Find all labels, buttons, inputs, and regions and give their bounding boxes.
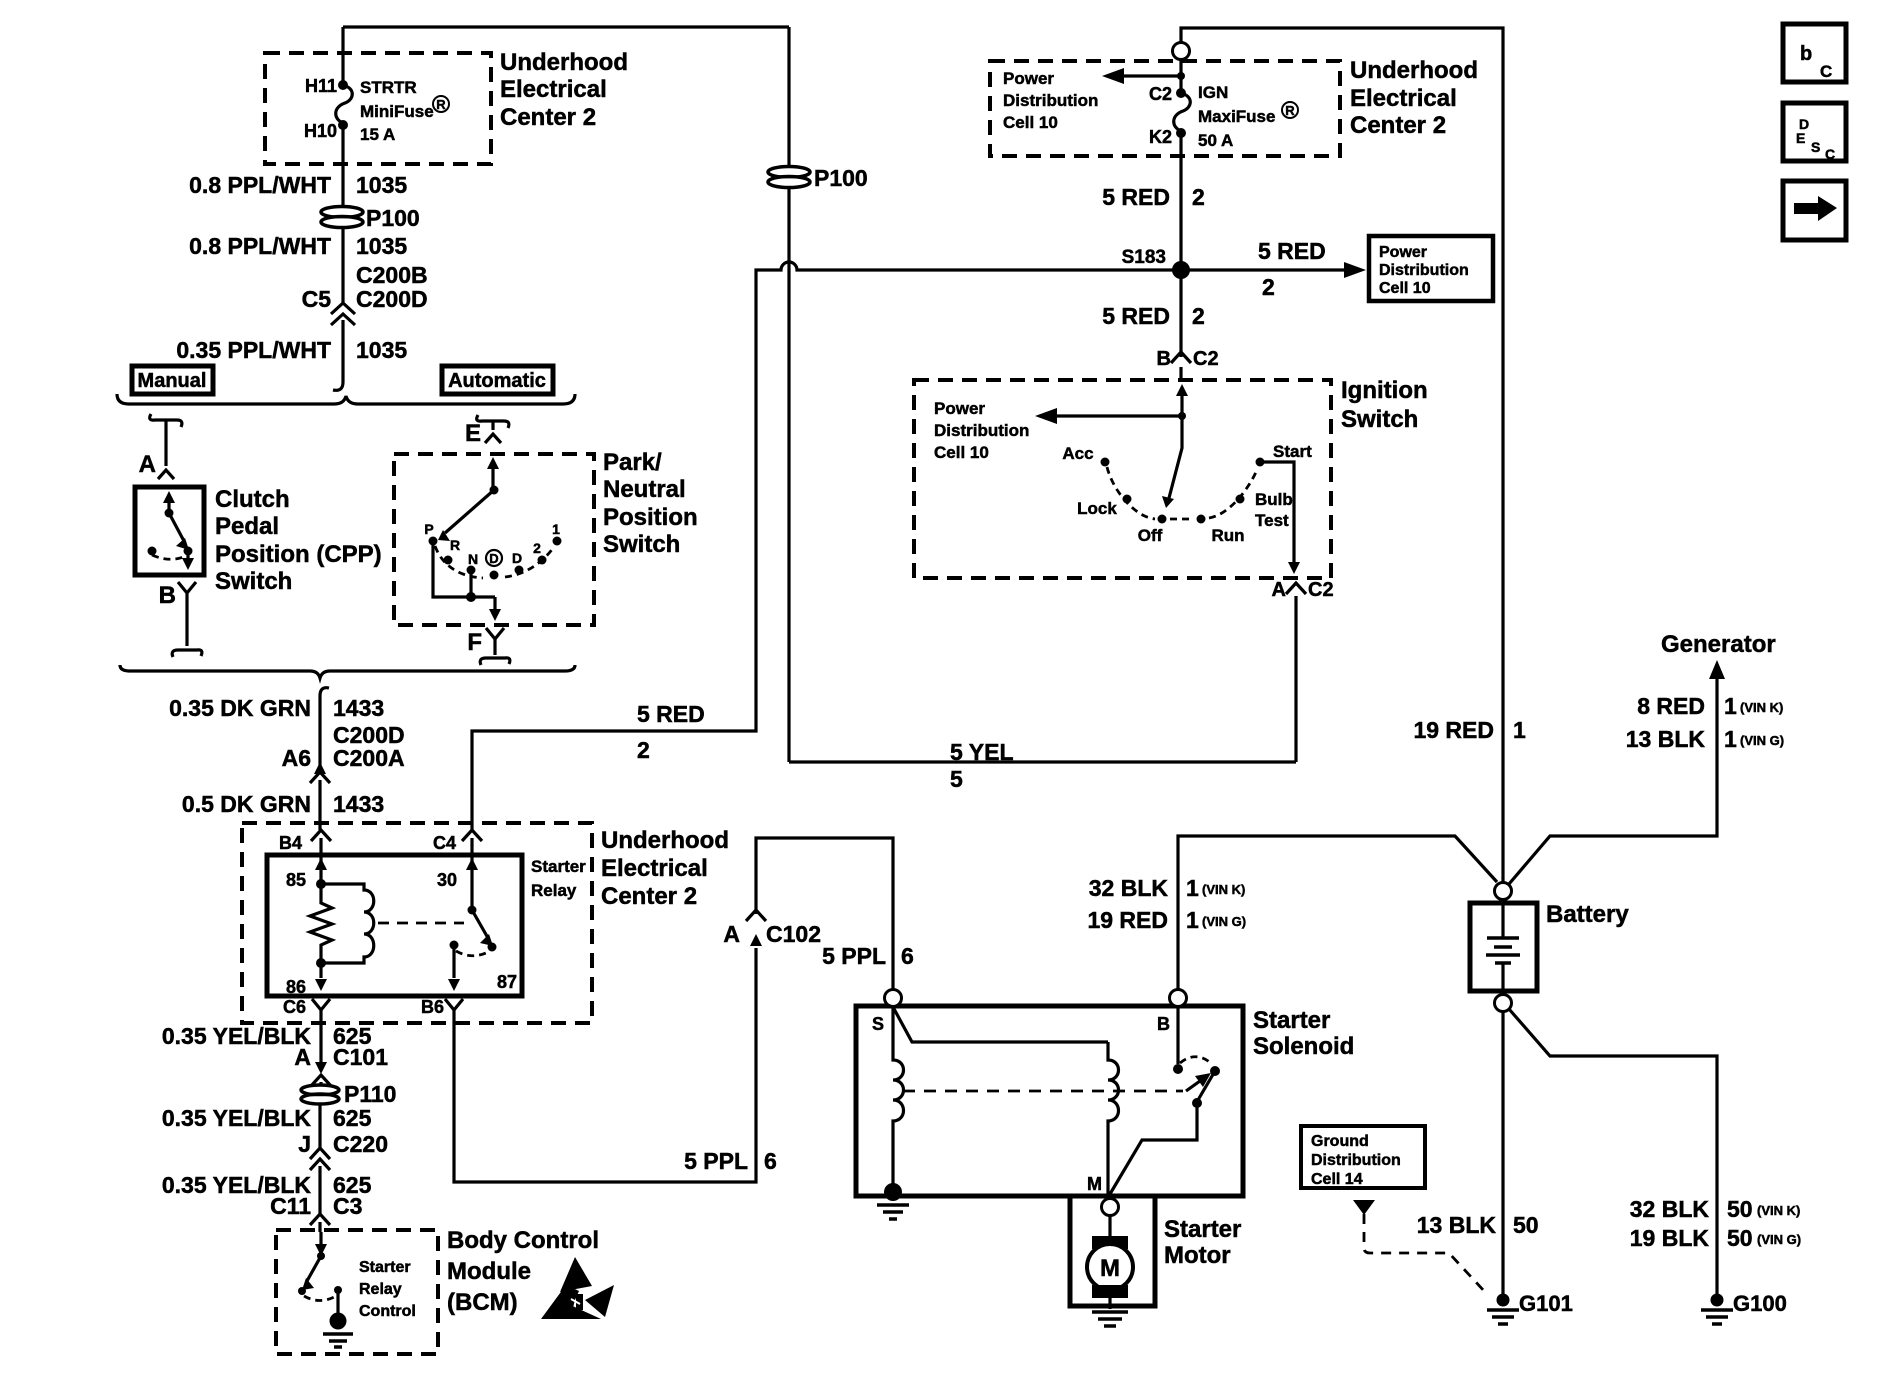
- motor internals: [1108, 1216, 1111, 1236]
- svg-text:Module: Module: [447, 1258, 531, 1285]
- svg-text:Manual: Manual: [138, 370, 207, 392]
- battery negative branch to G100: [1509, 1009, 1717, 1294]
- svg-text:P110: P110: [344, 1081, 396, 1107]
- pin B6 fork: [445, 999, 463, 1010]
- wire: A C2 drop: [1294, 596, 1297, 762]
- svg-text:C2: C2: [1308, 579, 1334, 601]
- svg-text:C2: C2: [1193, 348, 1219, 370]
- svg-text:D: D: [489, 551, 498, 566]
- svg-text:S: S: [872, 1014, 884, 1034]
- svg-text:Off: Off: [1138, 526, 1163, 545]
- svg-text:5 RED: 5 RED: [1102, 303, 1170, 329]
- svg-text:Starter: Starter: [1164, 1216, 1241, 1243]
- svg-text:(VIN K): (VIN K): [1740, 700, 1783, 715]
- wire: 19 RED from battery to IGN maxifuse: [1181, 28, 1503, 883]
- svg-text:B6: B6: [421, 997, 444, 1017]
- svg-text:8 RED: 8 RED: [1637, 693, 1705, 719]
- svg-text:F: F: [467, 629, 482, 656]
- connector B C2: [1171, 352, 1191, 363]
- relay contact travel arc: [456, 951, 488, 956]
- svg-text:M: M: [1100, 1255, 1120, 1282]
- terminal F of PNP: fork: [486, 628, 504, 639]
- svg-text:85: 85: [286, 870, 306, 890]
- svg-text:C200B: C200B: [356, 262, 428, 288]
- svg-text:Pedal: Pedal: [215, 513, 279, 540]
- corner icon arrow: [1783, 181, 1846, 240]
- svg-text:0.8 PPL/WHT: 0.8 PPL/WHT: [189, 172, 331, 198]
- svg-text:Center 2: Center 2: [601, 883, 697, 910]
- svg-text:Battery: Battery: [1546, 901, 1629, 928]
- ignition travel arc dashed: [1107, 467, 1257, 519]
- svg-text:(VIN K): (VIN K): [1202, 882, 1245, 897]
- solenoid pull-in coil (right): [1108, 1042, 1119, 1196]
- svg-text:b: b: [1800, 43, 1812, 65]
- svg-text:1: 1: [1513, 717, 1526, 743]
- svg-text:Run: Run: [1211, 526, 1244, 545]
- svg-text:0.35 PPL/WHT: 0.35 PPL/WHT: [176, 337, 331, 363]
- ignition branch arrow to power dist: [1178, 412, 1186, 420]
- svg-text:N: N: [468, 551, 478, 567]
- svg-text:1433: 1433: [333, 791, 384, 817]
- svg-text:A: A: [1272, 579, 1286, 601]
- battery: [1495, 883, 1512, 900]
- svg-text:5 PPL: 5 PPL: [822, 943, 886, 969]
- solenoid linkage dashed: [903, 1090, 1183, 1093]
- ignition switch dashed box: [914, 380, 1331, 578]
- Automatic box: [442, 366, 553, 394]
- svg-text:1035: 1035: [356, 233, 407, 259]
- wire: drop to H11: [341, 27, 344, 85]
- svg-text:C3: C3: [333, 1193, 362, 1219]
- svg-text:C200A: C200A: [333, 745, 405, 771]
- svg-text:86: 86: [286, 977, 306, 997]
- svg-text:1433: 1433: [333, 695, 384, 721]
- wire to brace with end hook: [333, 320, 343, 390]
- svg-text:Underhood: Underhood: [1350, 57, 1478, 84]
- svg-text:32 BLK: 32 BLK: [1089, 875, 1169, 901]
- starter motor box: [1070, 1196, 1155, 1306]
- svg-text:6: 6: [901, 943, 914, 969]
- wire: S183 right arrow to power distribution: [1181, 268, 1346, 271]
- P/N output wiring: [433, 541, 495, 597]
- ground G100: [1711, 1294, 1724, 1307]
- svg-text:C6: C6: [283, 997, 306, 1017]
- svg-text:C101: C101: [333, 1044, 388, 1070]
- wire: 5 YEL horizontal to ignition A C2: [789, 760, 1296, 763]
- relay pin 86 exit: [319, 963, 322, 978]
- svg-text:2: 2: [637, 737, 650, 763]
- svg-text:19 RED: 19 RED: [1413, 717, 1494, 743]
- svg-text:19 RED: 19 RED: [1087, 907, 1168, 933]
- svg-text:Underhood: Underhood: [601, 827, 729, 854]
- svg-text:0.35 YEL/BLK: 0.35 YEL/BLK: [162, 1105, 312, 1131]
- svg-text:(VIN G): (VIN G): [1740, 733, 1784, 748]
- solenoid switch: B contact: [1176, 1007, 1179, 1064]
- svg-text:A: A: [139, 451, 156, 478]
- svg-text:0.8 PPL/WHT: 0.8 PPL/WHT: [189, 233, 331, 259]
- svg-text:Start: Start: [1273, 442, 1312, 461]
- svg-text:Park/: Park/: [603, 449, 662, 476]
- svg-text:Starter: Starter: [1253, 1007, 1330, 1034]
- relay pin 30 entry: [470, 838, 473, 910]
- svg-text:Automatic: Automatic: [448, 370, 546, 392]
- svg-text:Electrical: Electrical: [1350, 85, 1457, 112]
- svg-text:R: R: [1285, 103, 1295, 118]
- PNP interior: wiper: [491, 464, 494, 490]
- wire: solenoid B to battery +: [1178, 836, 1497, 991]
- svg-text:C: C: [1825, 146, 1835, 162]
- svg-text:30: 30: [437, 870, 457, 890]
- svg-text:5 PPL: 5 PPL: [684, 1148, 748, 1174]
- svg-text:B: B: [159, 582, 176, 609]
- svg-text:Cell 10: Cell 10: [934, 443, 989, 462]
- underhood electrical center 2 (top left) dashed box: [265, 53, 491, 164]
- svg-text:Distribution: Distribution: [1003, 91, 1098, 110]
- svg-text:Clutch: Clutch: [215, 486, 290, 513]
- svg-text:Position (CPP): Position (CPP): [215, 541, 382, 568]
- svg-text:1: 1: [1186, 907, 1199, 933]
- ground distribution pointer: [1353, 1200, 1375, 1215]
- PNP contacts P R N D D 2 1: [429, 537, 438, 546]
- svg-text:C200D: C200D: [356, 286, 428, 312]
- svg-text:5: 5: [950, 766, 963, 792]
- svg-text:Center 2: Center 2: [500, 104, 596, 131]
- svg-text:B: B: [1157, 1014, 1170, 1034]
- svg-text:Switch: Switch: [1341, 406, 1418, 433]
- svg-text:(VIN G): (VIN G): [1757, 1232, 1801, 1247]
- svg-text:50 A: 50 A: [1198, 131, 1233, 150]
- BCM driver: entry arrow: [319, 1232, 322, 1250]
- terminal E of PNP: T-bar: [477, 415, 509, 428]
- svg-text:Distribution: Distribution: [1311, 1152, 1401, 1169]
- svg-text:B4: B4: [279, 833, 302, 853]
- svg-text:87: 87: [497, 972, 517, 992]
- svg-text:G100: G100: [1733, 1291, 1787, 1316]
- wire C6 down: [319, 1010, 322, 1062]
- connector A C2 below ignition: [1286, 583, 1306, 594]
- grommet P100 (middle): [768, 167, 810, 178]
- svg-text:(BCM): (BCM): [447, 1289, 518, 1316]
- relay coil: [321, 884, 374, 963]
- svg-text:STRTR: STRTR: [360, 78, 417, 97]
- svg-text:C11: C11: [270, 1193, 311, 1219]
- wire: P100 mid drop (5 YEL): [787, 27, 790, 166]
- svg-text:C220: C220: [333, 1131, 388, 1157]
- svg-text:Position: Position: [603, 504, 698, 531]
- svg-text:A: A: [294, 1044, 311, 1070]
- svg-text:Body Control: Body Control: [447, 1227, 599, 1254]
- relay linkage dashed: [378, 922, 464, 925]
- solenoid switch arm to M: [1198, 1071, 1215, 1100]
- svg-text:C2: C2: [1149, 84, 1172, 104]
- grommet P100 (left): [321, 207, 363, 218]
- relay resistor: [310, 884, 332, 963]
- svg-text:2: 2: [1192, 184, 1205, 210]
- svg-text:0.35 YEL/BLK: 0.35 YEL/BLK: [162, 1023, 312, 1049]
- start output: [1260, 462, 1294, 565]
- terminal B of CPP: fork: [178, 582, 196, 593]
- coil junction bottom: [316, 958, 326, 968]
- svg-text:1: 1: [1724, 726, 1737, 752]
- svg-text:1: 1: [1724, 693, 1737, 719]
- svg-text:0.35 DK GRN: 0.35 DK GRN: [169, 695, 311, 721]
- svg-text:5 RED: 5 RED: [1102, 184, 1170, 210]
- underhood electrical center 2 (relay) dashed box: [242, 823, 592, 1023]
- svg-text:(VIN K): (VIN K): [1757, 1203, 1800, 1218]
- underhood electrical center 2 (top right) dashed box: [990, 61, 1340, 156]
- svg-text:J: J: [298, 1131, 311, 1157]
- svg-text:Motor: Motor: [1164, 1242, 1231, 1269]
- svg-text:0.5 DK GRN: 0.5 DK GRN: [182, 791, 311, 817]
- svg-text:Distribution: Distribution: [934, 421, 1029, 440]
- svg-text:A: A: [723, 921, 740, 947]
- svg-text:E: E: [465, 420, 481, 447]
- brace (top, options split): [117, 394, 575, 404]
- wire K2 down to S183: [1179, 133, 1182, 357]
- solenoid ground: [884, 1183, 902, 1201]
- svg-text:Cell 10: Cell 10: [1003, 113, 1058, 132]
- svg-text:50: 50: [1727, 1225, 1753, 1251]
- BCM switch arm: [307, 1256, 321, 1281]
- svg-text:Lock: Lock: [1077, 499, 1117, 518]
- battery negative to G101: [1501, 1011, 1504, 1294]
- svg-text:Acc: Acc: [1062, 444, 1093, 463]
- svg-text:C: C: [1820, 62, 1832, 81]
- svg-text:Cell 14: Cell 14: [1311, 1171, 1363, 1188]
- relay pin 85 entry: [319, 838, 322, 884]
- svg-text:1035: 1035: [356, 172, 407, 198]
- svg-text:Solenoid: Solenoid: [1253, 1033, 1354, 1060]
- wire: S183 left branch (5 RED to relay 30) with hop over P100 wire: [472, 262, 1181, 830]
- ground G101: [1497, 1294, 1510, 1307]
- terminal B: [1170, 990, 1187, 1007]
- wire H10 down to P100: [341, 125, 344, 206]
- svg-text:15 A: 15 A: [360, 125, 395, 144]
- svg-text:R: R: [450, 537, 460, 553]
- Manual box: [132, 366, 213, 394]
- svg-text:Electrical: Electrical: [601, 855, 708, 882]
- svg-text:Switch: Switch: [215, 568, 292, 595]
- svg-text:Control: Control: [359, 1303, 416, 1320]
- coil junction top: [316, 879, 326, 889]
- svg-text:625: 625: [333, 1105, 372, 1131]
- svg-text:MaxiFuse: MaxiFuse: [1198, 107, 1275, 126]
- svg-text:C102: C102: [766, 921, 821, 947]
- power distribution cell 10 box (right): [1369, 236, 1493, 301]
- wire below P100: [341, 228, 344, 303]
- ESD symbol: [560, 1257, 592, 1292]
- svg-text:Starter: Starter: [359, 1259, 411, 1276]
- generator branch: [1509, 672, 1717, 884]
- svg-text:Relay: Relay: [359, 1281, 402, 1298]
- solenoid pull-in winding feed: [893, 1007, 1108, 1042]
- relay switch arm: [468, 906, 477, 915]
- ground distribution cell 14 box: [1301, 1126, 1425, 1188]
- svg-text:50: 50: [1513, 1212, 1539, 1238]
- svg-text:1: 1: [1186, 875, 1199, 901]
- svg-text:19 BLK: 19 BLK: [1630, 1225, 1710, 1251]
- svg-text:Generator: Generator: [1661, 631, 1776, 658]
- svg-text:5 RED: 5 RED: [1258, 238, 1326, 264]
- svg-text:2: 2: [1192, 303, 1205, 329]
- svg-text:Bulb: Bulb: [1255, 490, 1293, 509]
- svg-text:K2: K2: [1149, 127, 1172, 147]
- svg-text:Ground: Ground: [1311, 1133, 1369, 1150]
- svg-text:C4: C4: [433, 833, 456, 853]
- svg-text:Power: Power: [934, 399, 985, 418]
- svg-text:Starter: Starter: [531, 857, 586, 876]
- fuse IGN MaxiFuse 50A (C2-K2): [1176, 88, 1186, 98]
- svg-text:S183: S183: [1122, 247, 1166, 268]
- svg-text:Relay: Relay: [531, 881, 577, 900]
- svg-text:H10: H10: [304, 121, 337, 141]
- svg-text:Power: Power: [1379, 244, 1427, 261]
- svg-text:2: 2: [533, 540, 541, 556]
- connector C200 double chevron: [331, 303, 355, 314]
- svg-text:Distribution: Distribution: [1379, 262, 1469, 279]
- svg-text:Power: Power: [1003, 69, 1054, 88]
- svg-text:R: R: [436, 97, 446, 112]
- pin C6 fork: [312, 999, 330, 1010]
- svg-text:5 RED: 5 RED: [637, 701, 705, 727]
- svg-text:13 BLK: 13 BLK: [1626, 726, 1706, 752]
- svg-text:B: B: [1157, 348, 1171, 370]
- svg-text:P100: P100: [814, 165, 868, 191]
- body control module dashed box: [276, 1230, 438, 1354]
- svg-text:G101: G101: [1519, 1291, 1573, 1316]
- park/neutral position switch dashed box: [394, 454, 594, 625]
- grommet P110: [301, 1085, 339, 1095]
- svg-text:H11: H11: [305, 76, 337, 96]
- solenoid hold-in coil (left): [893, 1007, 904, 1186]
- connector C200A chevrons: [314, 762, 326, 774]
- wire below P110: [318, 1104, 321, 1148]
- svg-text:Switch: Switch: [603, 531, 680, 558]
- svg-text:(VIN G): (VIN G): [1202, 914, 1246, 929]
- svg-text:A6: A6: [282, 745, 311, 771]
- relay fixed contact 87: [450, 941, 459, 950]
- wire below brace with start hook: [320, 688, 329, 768]
- terminal A of CPP: T-bar: [150, 414, 182, 427]
- wire: 5 PPL loop from relay B6 to solenoid S: [454, 948, 756, 1182]
- svg-text:5 YEL: 5 YEL: [950, 739, 1014, 765]
- svg-text:13 BLK: 13 BLK: [1417, 1212, 1497, 1238]
- svg-text:P100: P100: [366, 205, 420, 231]
- wire: top horizontal 5 YEL feed to STRTR fuse: [343, 25, 789, 28]
- terminal ring at UEC2: [1173, 43, 1190, 60]
- corner icon DESC: [1783, 103, 1846, 161]
- starter solenoid box: [856, 1006, 1243, 1196]
- svg-text:M: M: [1087, 1174, 1102, 1194]
- ignition feed entry arrow: [1176, 384, 1188, 396]
- svg-text:1035: 1035: [356, 337, 407, 363]
- svg-text:32 BLK: 32 BLK: [1630, 1196, 1710, 1222]
- svg-text:50: 50: [1727, 1196, 1753, 1222]
- svg-text:S: S: [1811, 139, 1820, 155]
- fuse STRTR MiniFuse 15A (H11-H10): [338, 80, 348, 90]
- svg-text:MiniFuse: MiniFuse: [360, 102, 434, 121]
- svg-text:Center 2: Center 2: [1350, 112, 1446, 139]
- svg-text:1: 1: [552, 521, 560, 537]
- corner icon LOC: [1783, 24, 1846, 82]
- starter relay box: [267, 855, 522, 996]
- svg-text:Neutral: Neutral: [603, 476, 686, 503]
- svg-text:P: P: [424, 521, 433, 537]
- svg-text:E: E: [1796, 130, 1805, 146]
- svg-text:Underhood: Underhood: [500, 49, 628, 76]
- terminal S: [885, 990, 902, 1007]
- node S183: [1172, 261, 1190, 279]
- ignition switch contacts: [1101, 458, 1110, 467]
- clutch pedal position switch box: [135, 487, 204, 575]
- brace (bottom, options merge): [120, 665, 575, 678]
- svg-text:Cell 10: Cell 10: [1379, 280, 1431, 297]
- svg-text:2: 2: [1262, 274, 1275, 300]
- svg-text:Test: Test: [1255, 511, 1289, 530]
- branch arrow to power distribution: [1177, 72, 1185, 80]
- svg-text:Ignition: Ignition: [1341, 377, 1428, 404]
- CPP switch interior: [167, 500, 170, 513]
- svg-text:6: 6: [764, 1148, 777, 1174]
- svg-text:IGN: IGN: [1198, 83, 1228, 102]
- svg-text:C5: C5: [302, 286, 332, 312]
- svg-text:Electrical: Electrical: [500, 76, 607, 103]
- svg-text:D: D: [512, 550, 522, 566]
- BCM ground contact: [334, 1286, 342, 1294]
- dashed travel arc: [435, 546, 554, 578]
